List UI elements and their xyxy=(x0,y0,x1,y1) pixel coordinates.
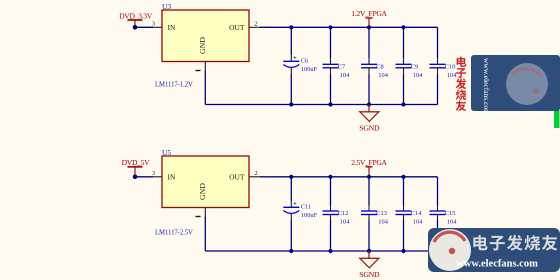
svg-text:IN: IN xyxy=(168,173,176,182)
junction C11 top xyxy=(289,175,293,179)
capacitor C9 xyxy=(396,27,424,104)
svg-text:104: 104 xyxy=(413,72,423,79)
watermark top (elecfans vertical) xyxy=(456,55,560,115)
svg-text:1.2V_FPGA: 1.2V_FPGA xyxy=(351,9,387,18)
capacitor C7 xyxy=(323,27,351,104)
capacitor C6 xyxy=(283,27,317,104)
capacitor C10 xyxy=(430,27,458,104)
junction C12 bottom xyxy=(328,249,332,253)
svg-text:104: 104 xyxy=(378,72,388,79)
svg-text:OUT: OUT xyxy=(229,23,245,32)
junction C11 bottom xyxy=(289,249,293,253)
wire OUT rail xyxy=(260,176,438,178)
junction C6 top xyxy=(289,25,293,29)
junction C13 top xyxy=(367,175,371,179)
power port 1.2V_FPGA xyxy=(351,9,387,27)
junction C12 top xyxy=(328,175,332,179)
power flag DVD_5V xyxy=(122,158,151,177)
junction C13 bottom xyxy=(367,249,371,253)
ground SGND xyxy=(359,105,380,133)
pin 1 (GND) xyxy=(196,62,206,71)
pin 2 (OUT) xyxy=(249,170,260,177)
capacitor C12 xyxy=(323,177,351,251)
junction C7 bottom xyxy=(328,102,332,106)
regulator U5 (LM1117-2.5V) xyxy=(162,148,249,207)
pin 3 (IN) xyxy=(152,170,162,177)
ground SGND xyxy=(359,251,380,279)
svg-text:DVD_3.3V: DVD_3.3V xyxy=(119,11,153,20)
svg-text:U5: U5 xyxy=(162,148,171,157)
wire input to IN pin xyxy=(135,176,153,178)
svg-text:www.elecfans.com: www.elecfans.com xyxy=(456,259,538,270)
svg-text:C10: C10 xyxy=(445,63,456,70)
wire input to IN pin xyxy=(135,26,153,28)
junction dot input xyxy=(133,25,138,30)
svg-text:104: 104 xyxy=(340,72,350,79)
svg-text:DVD_5V: DVD_5V xyxy=(122,158,151,167)
power flag DVD_3.3V xyxy=(119,11,153,27)
svg-text:C6: C6 xyxy=(301,58,308,65)
junction dot input xyxy=(133,175,138,180)
junction C7 top xyxy=(328,25,332,29)
svg-text:GND: GND xyxy=(198,183,207,200)
svg-text:GND: GND xyxy=(198,37,207,54)
pin 2 (OUT) xyxy=(249,21,260,28)
capacitor C15 xyxy=(430,177,458,251)
svg-text:C8: C8 xyxy=(376,63,383,70)
svg-text:C11: C11 xyxy=(301,204,311,211)
svg-text:LM1117-1.2V: LM1117-1.2V xyxy=(155,82,193,89)
svg-text:C15: C15 xyxy=(445,210,456,217)
svg-text:C14: C14 xyxy=(411,210,422,217)
svg-text:C12: C12 xyxy=(338,210,349,217)
junction C14 top xyxy=(401,175,405,179)
svg-text:C9: C9 xyxy=(411,63,418,70)
svg-text:104: 104 xyxy=(340,219,350,226)
junction C6 bottom xyxy=(289,102,293,106)
svg-text:104: 104 xyxy=(378,219,388,226)
pin 1 (GND) xyxy=(196,208,206,217)
junction C8 bottom xyxy=(367,102,371,106)
wire GND pin down to ground rail xyxy=(204,71,206,105)
svg-text:2.5V_FPGA: 2.5V_FPGA xyxy=(351,158,387,167)
svg-text:OUT: OUT xyxy=(229,173,245,182)
capacitor C11 xyxy=(283,177,317,251)
svg-text:+: + xyxy=(293,201,297,208)
svg-text:104: 104 xyxy=(447,72,457,79)
capacitor C13 xyxy=(361,177,389,251)
svg-text:100uF: 100uF xyxy=(301,212,318,219)
wire GND pin down to ground rail xyxy=(204,217,206,252)
svg-text:104: 104 xyxy=(413,219,423,226)
wire ground rail xyxy=(205,104,437,106)
green edge mark xyxy=(554,110,560,128)
svg-text:SGND: SGND xyxy=(359,124,380,133)
svg-text:104: 104 xyxy=(447,219,457,226)
svg-text:C7: C7 xyxy=(338,63,346,70)
pin 3 (IN) xyxy=(152,21,162,28)
svg-text:SGND: SGND xyxy=(359,270,380,279)
watermark bottom (elecfans horizontal) xyxy=(428,228,560,272)
junction C9 top xyxy=(401,25,405,29)
svg-text:3: 3 xyxy=(152,170,155,177)
svg-text:U3: U3 xyxy=(162,2,171,11)
capacitor C8 xyxy=(361,27,389,104)
svg-text:C13: C13 xyxy=(376,210,387,217)
svg-text:+: + xyxy=(293,55,297,62)
svg-text:LM1117-2.5V: LM1117-2.5V xyxy=(155,230,193,237)
wire OUT rail xyxy=(260,26,438,28)
svg-text:www.elecfans.com: www.elecfans.com xyxy=(482,58,491,115)
svg-text:2: 2 xyxy=(254,170,257,177)
power port 2.5V_FPGA xyxy=(351,158,387,177)
junction C9 bottom xyxy=(401,102,405,106)
svg-text:3: 3 xyxy=(152,21,155,28)
svg-text:IN: IN xyxy=(168,23,176,32)
junction C14 bottom xyxy=(401,249,405,253)
wire ground rail xyxy=(205,250,437,252)
svg-text:100uF: 100uF xyxy=(301,66,318,73)
svg-text:2: 2 xyxy=(254,21,257,28)
regulator U3 (LM1117-1.2V) xyxy=(162,2,249,61)
junction C8 top xyxy=(367,25,371,29)
capacitor C14 xyxy=(396,177,424,251)
